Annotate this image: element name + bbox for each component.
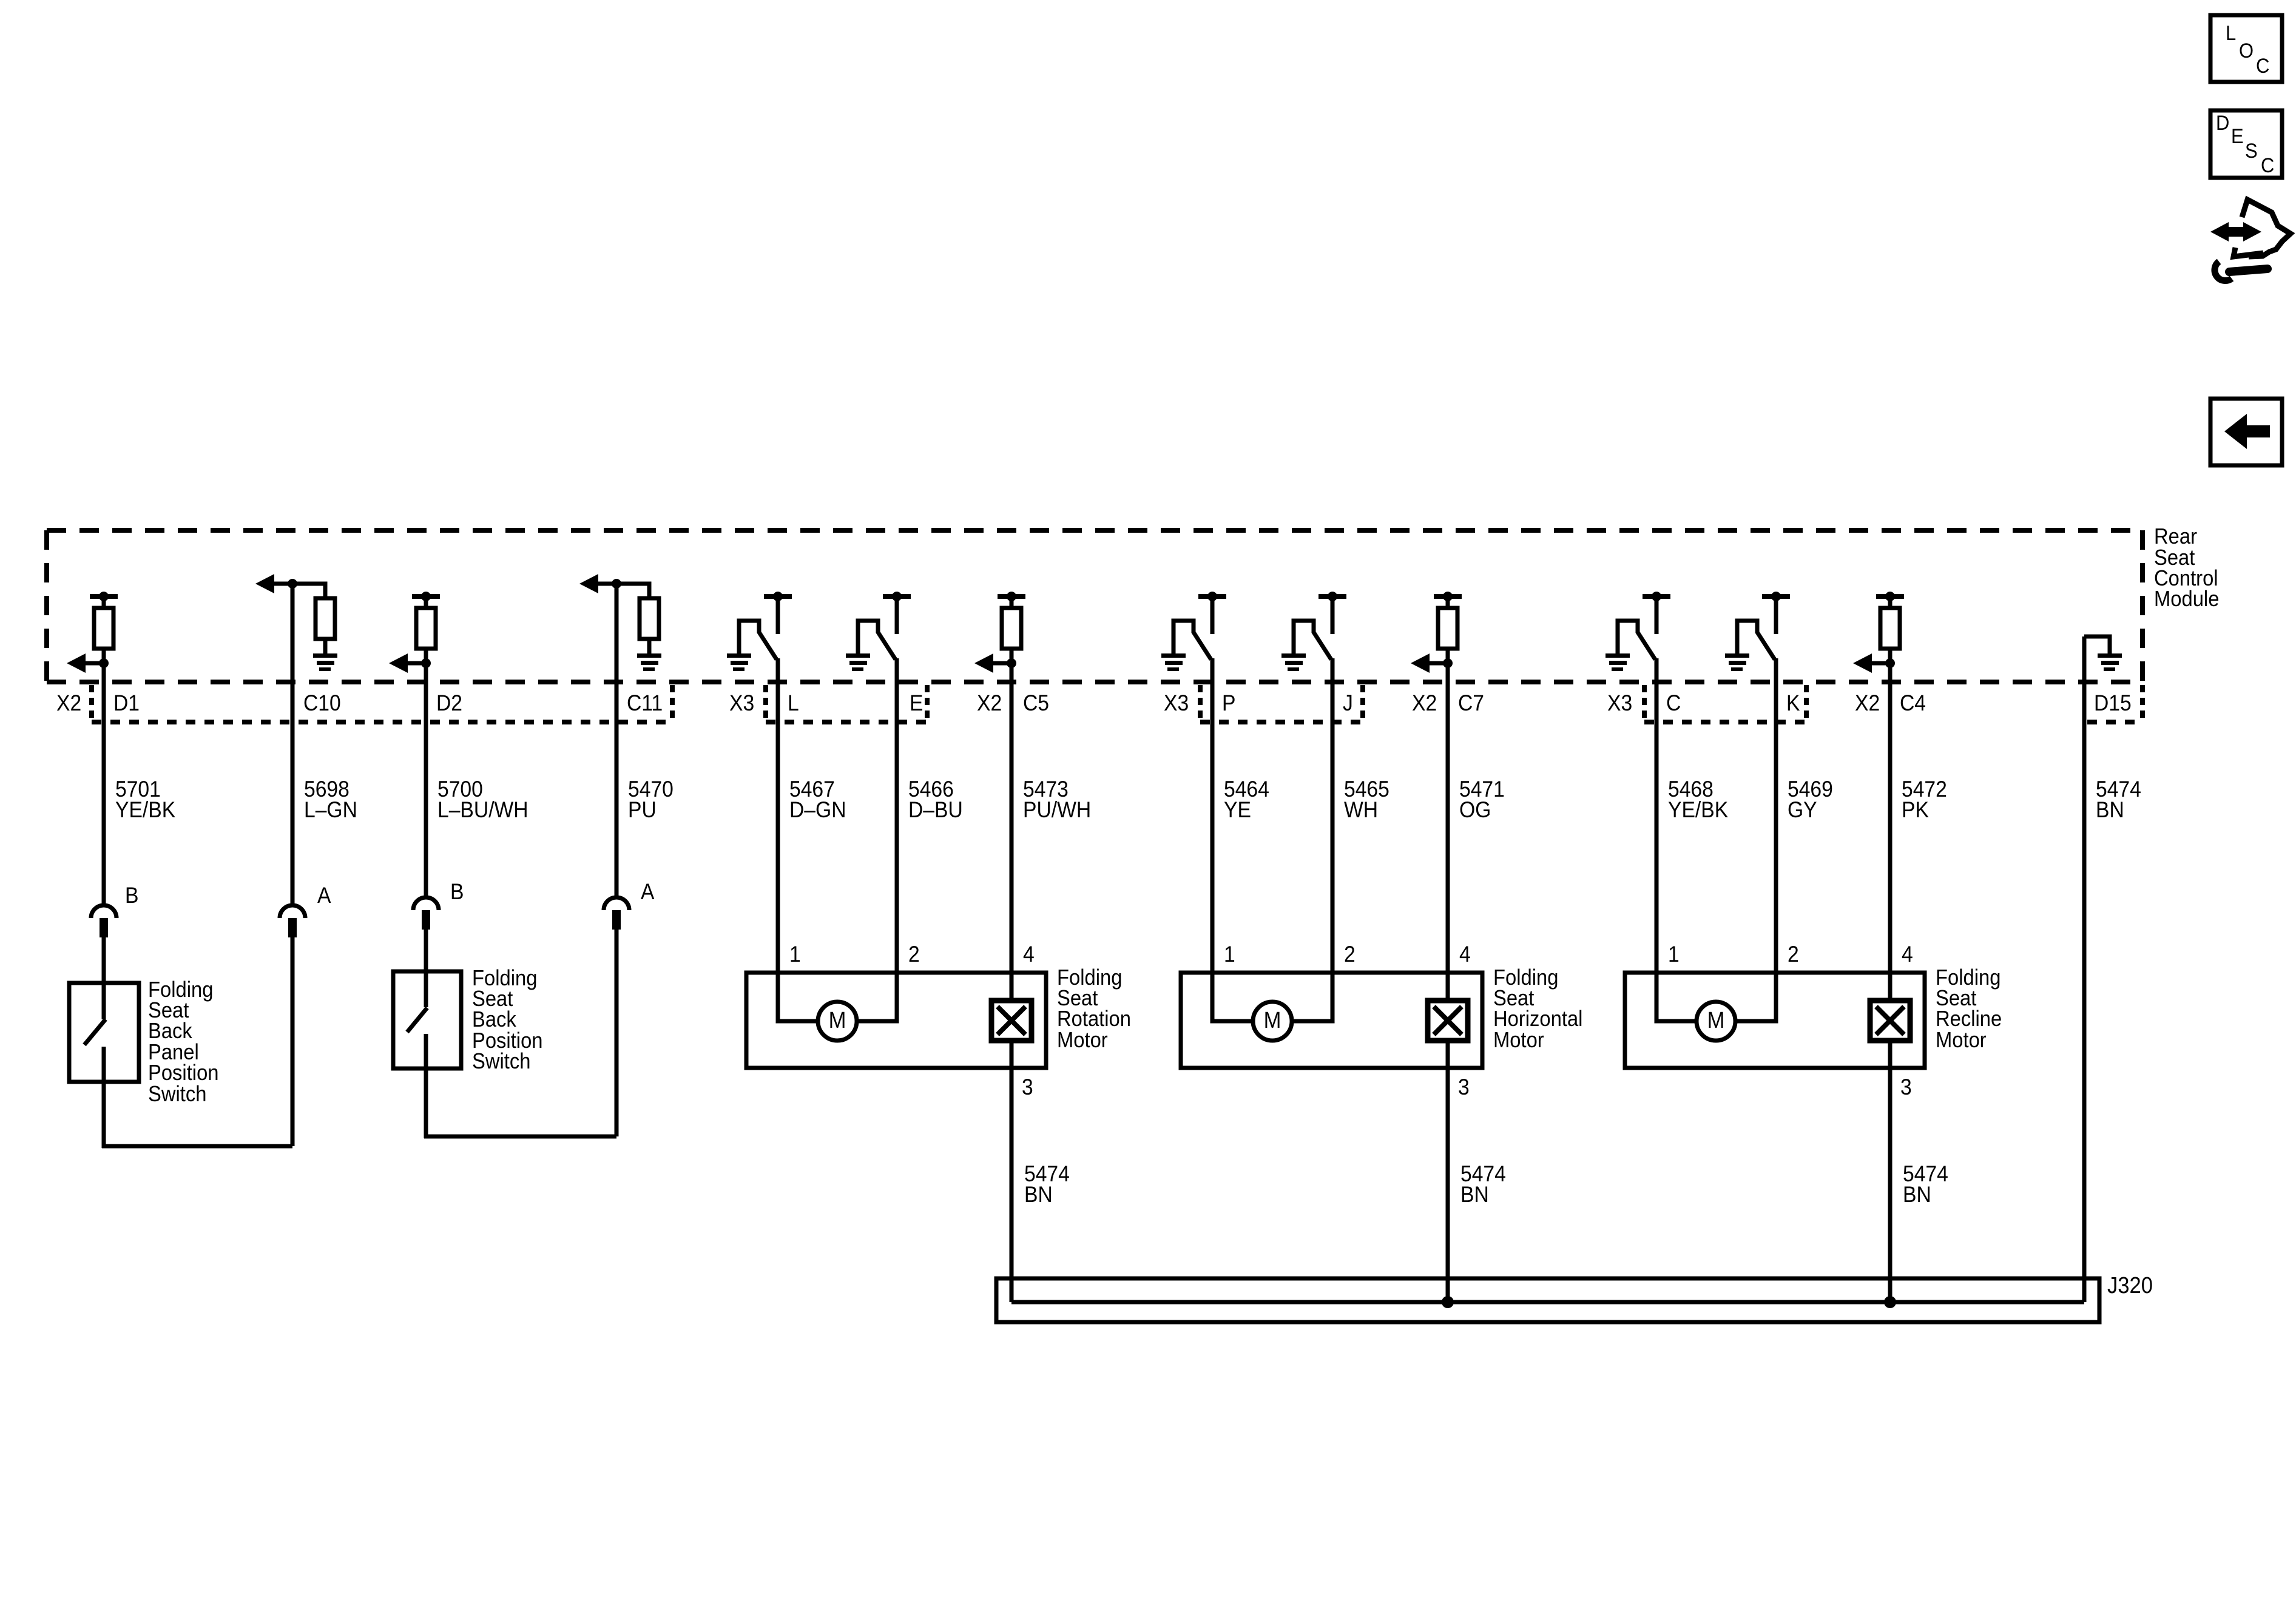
wire S1 bottom to C10 bbox=[102, 1144, 292, 1149]
resistor C7 bbox=[1438, 608, 1457, 649]
icon back-arrow box bbox=[2210, 399, 2282, 465]
wire D1 (module internal) bbox=[102, 596, 106, 686]
svg-text:B: B bbox=[125, 883, 138, 908]
connector pin B (D2) bbox=[413, 897, 439, 910]
wire C (module internal) bbox=[1655, 658, 1659, 686]
wire label 5467 D–GN bbox=[789, 777, 846, 823]
wire E (module internal) bbox=[895, 658, 899, 686]
connector pin A (C10) bbox=[280, 905, 305, 918]
tick node E bbox=[883, 594, 911, 599]
connector X2 pin-row dashed box (D1..C11) bbox=[92, 685, 672, 722]
svg-text:Motor: Motor bbox=[1936, 1028, 1987, 1053]
svg-text:C7: C7 bbox=[1458, 691, 1484, 716]
svg-text:3: 3 bbox=[1900, 1075, 1912, 1100]
resistor C4 bbox=[1880, 608, 1900, 649]
wire J (module internal) bbox=[1331, 658, 1335, 686]
connector X3 pin-row dashed box (C,K) bbox=[1644, 685, 1806, 722]
wire label 5466 D–BU bbox=[908, 777, 963, 823]
svg-text:P: P bbox=[1222, 691, 1235, 716]
wire label 5469 GY bbox=[1788, 777, 1833, 823]
svg-text:X3: X3 bbox=[1164, 691, 1189, 716]
svg-text:PK: PK bbox=[1902, 798, 1929, 823]
svg-text:L–BU/WH: L–BU/WH bbox=[437, 798, 528, 823]
motor box Folding Seat Horizontal Motor bbox=[1181, 973, 1482, 1068]
svg-text:Module: Module bbox=[2154, 587, 2219, 612]
wire D1 to connector bbox=[102, 649, 106, 903]
svg-text:2: 2 bbox=[1344, 942, 1356, 967]
tick node C bbox=[1643, 594, 1670, 599]
tick node C5 bbox=[998, 594, 1025, 599]
svg-text:Rear: Rear bbox=[2154, 525, 2197, 549]
ground hook D15 (module internal) bbox=[2084, 636, 2110, 653]
ground K bbox=[1725, 653, 1749, 658]
svg-text:Horizontal: Horizontal bbox=[1493, 1007, 1582, 1031]
motor box Folding Seat Recline Motor bbox=[1625, 973, 1925, 1068]
wire C7 (module internal) bbox=[1446, 596, 1450, 686]
driver switch K bbox=[1737, 596, 1776, 660]
wire label 5472 PK bbox=[1902, 777, 1947, 823]
wire C11 (module internal) bbox=[616, 584, 649, 686]
pin numbers Folding Seat Recline Motor bbox=[1668, 942, 1913, 1100]
icon jump-to-procedure (double arrow, outline, wrench) bbox=[2210, 200, 2291, 281]
ground D15 bbox=[2098, 653, 2122, 658]
tick node L bbox=[764, 594, 792, 599]
wire C10 pin down bbox=[291, 937, 295, 1146]
switch S1 box Folding Seat Back Panel Position Switch bbox=[69, 983, 139, 1082]
svg-text:Back: Back bbox=[472, 1008, 517, 1032]
connector pin A (C11) bbox=[604, 897, 629, 910]
svg-text:BN: BN bbox=[1903, 1183, 1931, 1207]
svg-text:3: 3 bbox=[1458, 1075, 1470, 1100]
wire pin3 Folding Seat Recline Motor bbox=[1888, 1041, 1893, 1302]
wire label 5474 BN bbox=[2096, 777, 2141, 823]
svg-text:D–GN: D–GN bbox=[789, 798, 846, 823]
wire D2 (module internal) bbox=[424, 596, 428, 686]
svg-text:OG: OG bbox=[1459, 798, 1491, 823]
junction node (horizontal motor ground) bbox=[1442, 1296, 1454, 1308]
label Folding Seat Rotation Motor bbox=[1057, 966, 1131, 1053]
motor M Folding Seat Rotation Motor bbox=[818, 1002, 857, 1041]
wire D15 down to bus bbox=[2082, 636, 2087, 1302]
output arrow C4 bbox=[1853, 653, 1895, 673]
output arrow D2 bbox=[389, 653, 431, 673]
wire C4 (module internal) bbox=[1888, 596, 1893, 686]
svg-text:1: 1 bbox=[1224, 942, 1235, 967]
wire pin4 Folding Seat Horizontal Motor bbox=[1446, 649, 1450, 1001]
resistor D2 bbox=[416, 608, 436, 649]
splice bus J320 box bbox=[996, 1278, 2099, 1322]
svg-text:3: 3 bbox=[1022, 1075, 1033, 1100]
svg-text:L: L bbox=[2226, 22, 2236, 45]
bus wire bbox=[1011, 1300, 2084, 1305]
switch S1 lower contact wire bbox=[102, 1047, 106, 1148]
wire label 5474 BN (Folding Seat Recline Motor) bbox=[1903, 1162, 1948, 1207]
switch S2 blade bbox=[407, 1008, 427, 1032]
solenoid X Folding Seat Rotation Motor bbox=[991, 1001, 1032, 1041]
svg-text:4: 4 bbox=[1023, 942, 1035, 967]
svg-text:BN: BN bbox=[2096, 798, 2124, 823]
svg-text:GY: GY bbox=[1788, 798, 1817, 823]
wire L (module internal) bbox=[776, 658, 780, 686]
output arrow C5 bbox=[974, 653, 1016, 673]
driver switch J bbox=[1294, 596, 1332, 660]
svg-text:D: D bbox=[2216, 112, 2229, 135]
tick node P bbox=[1198, 594, 1226, 599]
solenoid X Folding Seat Recline Motor bbox=[1870, 1001, 1910, 1041]
wire pin4 Folding Seat Recline Motor bbox=[1888, 649, 1893, 1001]
svg-text:C: C bbox=[2261, 154, 2274, 177]
ground P bbox=[1161, 653, 1186, 658]
svg-text:L–GN: L–GN bbox=[304, 798, 357, 823]
svg-text:E: E bbox=[2231, 125, 2244, 148]
wire C10 (module internal) bbox=[292, 584, 325, 686]
svg-text:Recline: Recline bbox=[1936, 1007, 2002, 1031]
svg-text:B: B bbox=[450, 880, 464, 905]
svg-text:BN: BN bbox=[1024, 1183, 1053, 1207]
icon DESC box bbox=[2210, 110, 2282, 178]
svg-text:X2: X2 bbox=[977, 691, 1002, 716]
svg-text:C10: C10 bbox=[303, 691, 341, 716]
svg-text:O: O bbox=[2239, 39, 2254, 62]
tick node D2 bbox=[412, 594, 440, 599]
wire C11 to connector bbox=[615, 584, 619, 896]
svg-text:C11: C11 bbox=[627, 691, 663, 716]
svg-text:D2: D2 bbox=[436, 691, 462, 716]
wire label 5701 YE/BK bbox=[115, 777, 176, 823]
solenoid X Folding Seat Horizontal Motor bbox=[1428, 1001, 1468, 1041]
motor M Folding Seat Horizontal Motor bbox=[1253, 1002, 1292, 1041]
svg-text:WH: WH bbox=[1344, 798, 1378, 823]
svg-text:2: 2 bbox=[908, 942, 920, 967]
wire label 5473 PU/WH bbox=[1023, 777, 1091, 823]
svg-text:Rotation: Rotation bbox=[1057, 1007, 1131, 1031]
svg-text:4: 4 bbox=[1459, 942, 1471, 967]
svg-text:4: 4 bbox=[1902, 942, 1913, 967]
output arrow D1 bbox=[67, 653, 109, 673]
driver switch L bbox=[739, 596, 778, 660]
resistor D1 bbox=[94, 608, 113, 649]
wire label 5471 OG bbox=[1459, 777, 1505, 823]
wire label 5474 BN (Folding Seat Rotation Motor) bbox=[1024, 1162, 1070, 1207]
svg-text:C5: C5 bbox=[1023, 691, 1049, 716]
svg-text:D–BU: D–BU bbox=[908, 798, 963, 823]
label Folding Seat Recline Motor bbox=[1936, 966, 2002, 1053]
svg-text:C: C bbox=[2256, 55, 2269, 78]
wire label 5468 YE/BK bbox=[1668, 777, 1729, 823]
tick node C7 bbox=[1434, 594, 1462, 599]
svg-text:YE/BK: YE/BK bbox=[115, 798, 176, 823]
wire P (module internal) bbox=[1210, 658, 1215, 686]
svg-text:X2: X2 bbox=[1855, 691, 1880, 716]
pin numbers Folding Seat Rotation Motor bbox=[789, 942, 1035, 1100]
svg-text:2: 2 bbox=[1788, 942, 1799, 967]
connector pin-row dashed box (D15) bbox=[2087, 685, 2142, 722]
svg-text:Motor: Motor bbox=[1057, 1028, 1108, 1053]
connector X3 pin-row dashed box (P,J) bbox=[1200, 685, 1363, 722]
svg-text:A: A bbox=[641, 880, 655, 905]
svg-text:YE: YE bbox=[1224, 798, 1251, 823]
module box Rear Seat Control Module (dashed) bbox=[47, 530, 2142, 682]
svg-text:D1: D1 bbox=[113, 691, 140, 716]
svg-text:1: 1 bbox=[1668, 942, 1680, 967]
junction node (recline motor ground) bbox=[1884, 1296, 1896, 1308]
switch S2 lower contact wire bbox=[424, 1034, 428, 1138]
ground C bbox=[1606, 653, 1630, 658]
wire pin4 Folding Seat Rotation Motor bbox=[1010, 649, 1014, 1001]
svg-text:J: J bbox=[1343, 691, 1353, 716]
svg-text:D15: D15 bbox=[2094, 691, 2132, 716]
ground C10 bbox=[313, 653, 337, 658]
wire C11 pin down bbox=[615, 930, 619, 1136]
output arrow C7 bbox=[1411, 653, 1453, 673]
svg-text:X3: X3 bbox=[1607, 691, 1632, 716]
switch S2 box Folding Seat Back Position Switch bbox=[393, 971, 461, 1068]
tick node C4 bbox=[1876, 594, 1904, 599]
label Folding Seat Horizontal Motor bbox=[1493, 966, 1582, 1053]
svg-text:Back: Back bbox=[148, 1019, 193, 1044]
driver switch C bbox=[1618, 596, 1656, 660]
ground J bbox=[1281, 653, 1306, 658]
svg-text:J320: J320 bbox=[2107, 1272, 2153, 1298]
tick node K bbox=[1762, 594, 1790, 599]
wire pin2 Folding Seat Recline Motor bbox=[1736, 658, 1776, 1021]
pin numbers Folding Seat Horizontal Motor bbox=[1224, 942, 1471, 1100]
wire pin1 Folding Seat Recline Motor bbox=[1656, 658, 1696, 1021]
svg-text:Position: Position bbox=[148, 1061, 219, 1085]
wire label 5465 WH bbox=[1344, 777, 1389, 823]
svg-text:L: L bbox=[788, 691, 799, 716]
label Folding Seat Back Panel Position Switch bbox=[148, 978, 219, 1107]
connector pin B (D1) bbox=[91, 905, 116, 918]
svg-text:X3: X3 bbox=[729, 691, 754, 716]
wire D2 pin to switch S2 bbox=[424, 930, 428, 1007]
icon LOC box bbox=[2210, 15, 2282, 82]
wire C10 to connector bbox=[291, 584, 295, 903]
output arrow C11 bbox=[579, 574, 621, 593]
svg-text:PU/WH: PU/WH bbox=[1023, 798, 1091, 823]
svg-text:E: E bbox=[910, 691, 923, 716]
ground L bbox=[727, 653, 751, 658]
wire C5 (module internal) bbox=[1010, 596, 1014, 686]
wire S2 bottom to C11 bbox=[424, 1135, 616, 1139]
resistor C11 bbox=[640, 598, 659, 639]
wire D2 to connector bbox=[424, 649, 428, 896]
wire label 5470 PU bbox=[628, 777, 674, 823]
driver switch P bbox=[1173, 596, 1212, 660]
wire pin2 Folding Seat Rotation Motor bbox=[857, 658, 897, 1021]
wire K (module internal) bbox=[1774, 658, 1778, 686]
svg-text:M: M bbox=[1264, 1007, 1281, 1033]
driver switch E bbox=[858, 596, 897, 660]
svg-text:Switch: Switch bbox=[148, 1082, 206, 1107]
wire D1 pin to switch S1 bbox=[102, 937, 106, 1019]
output arrow C10 bbox=[255, 574, 297, 593]
svg-text:M: M bbox=[829, 1007, 846, 1033]
svg-text:BN: BN bbox=[1460, 1183, 1489, 1207]
svg-text:1: 1 bbox=[789, 942, 801, 967]
svg-text:Switch: Switch bbox=[472, 1050, 530, 1074]
resistor C5 bbox=[1002, 608, 1021, 649]
wire pin3 Folding Seat Horizontal Motor bbox=[1446, 1041, 1450, 1302]
motor box Folding Seat Rotation Motor bbox=[746, 973, 1046, 1068]
tick node D1 bbox=[90, 594, 118, 599]
svg-text:M: M bbox=[1707, 1007, 1725, 1033]
wire label 5698 L–GN bbox=[304, 777, 357, 823]
wire pin3 Folding Seat Rotation Motor bbox=[1010, 1041, 1014, 1302]
svg-text:X2: X2 bbox=[56, 691, 81, 716]
svg-text:S: S bbox=[2245, 140, 2258, 163]
svg-text:K: K bbox=[1786, 691, 1800, 716]
wire pin1 Folding Seat Horizontal Motor bbox=[1212, 658, 1252, 1021]
ground C11 bbox=[637, 653, 661, 658]
label Rear Seat Control Module bbox=[2154, 525, 2219, 612]
wire label 5474 BN (Folding Seat Horizontal Motor) bbox=[1460, 1162, 1506, 1207]
wire pin2 Folding Seat Horizontal Motor bbox=[1292, 658, 1332, 1021]
switch S1 blade bbox=[84, 1019, 106, 1045]
svg-text:C4: C4 bbox=[1900, 691, 1926, 716]
svg-text:Motor: Motor bbox=[1493, 1028, 1544, 1053]
svg-text:PU: PU bbox=[628, 798, 657, 823]
wire label 5464 YE bbox=[1224, 777, 1269, 823]
tick node J bbox=[1319, 594, 1346, 599]
wire pin1 Folding Seat Rotation Motor bbox=[778, 658, 817, 1021]
ground E bbox=[846, 653, 870, 658]
svg-text:X2: X2 bbox=[1412, 691, 1437, 716]
wire label 5700 L–BU/WH bbox=[437, 777, 528, 823]
label Folding Seat Back Position Switch bbox=[472, 967, 543, 1074]
motor M Folding Seat Recline Motor bbox=[1697, 1002, 1735, 1041]
connector X3 pin-row dashed box (L,E) bbox=[766, 685, 927, 722]
svg-text:YE/BK: YE/BK bbox=[1668, 798, 1729, 823]
svg-text:C: C bbox=[1666, 691, 1681, 716]
svg-text:A: A bbox=[317, 883, 331, 908]
resistor C10 bbox=[316, 598, 335, 639]
